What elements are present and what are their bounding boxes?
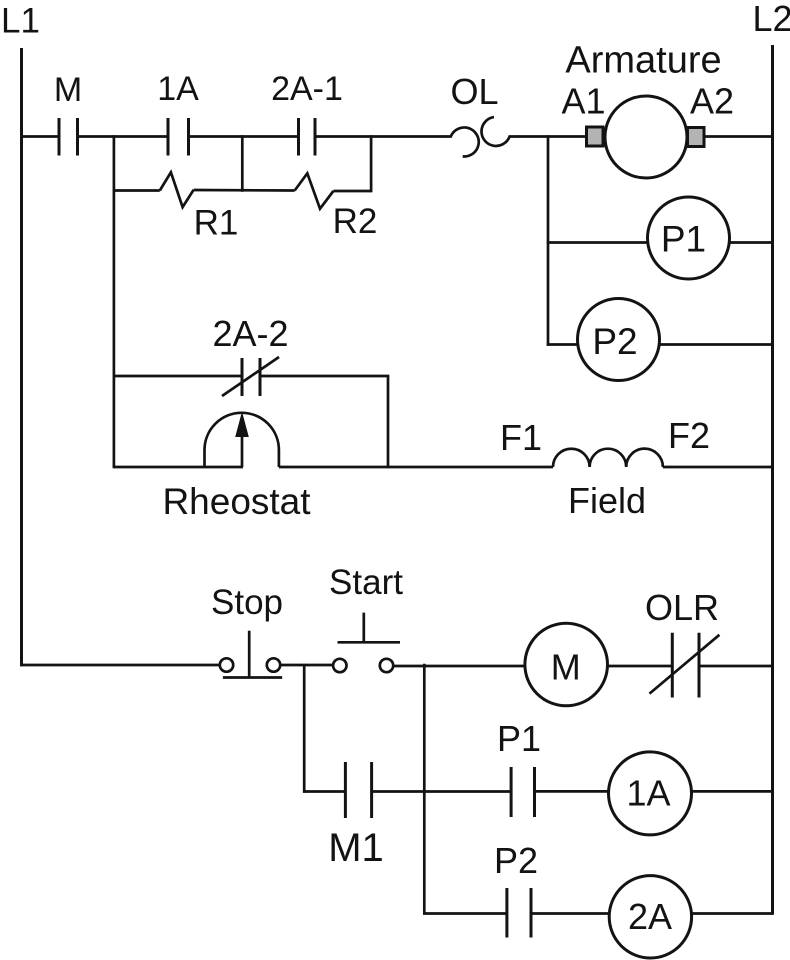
svg-text:Start: Start [329, 563, 403, 602]
wire P2 rung left [547, 343, 579, 346]
wire L1 rail [20, 48, 23, 666]
svg-text:M: M [551, 647, 581, 688]
wire M1 to contact P1 [372, 790, 512, 793]
coil 2A circle [609, 876, 691, 958]
wire Stop to Start [281, 664, 333, 667]
wire P2 rung right to L2 [658, 343, 773, 346]
wire M1 rung left [303, 790, 346, 793]
wire contact 1A to contact 2A-1 [189, 135, 299, 138]
resistor R1 zigzag [160, 172, 194, 207]
wire 2A-2 rung left [114, 375, 242, 378]
svg-text:Rheostat: Rheostat [162, 481, 311, 522]
svg-text:2A-2: 2A-2 [212, 313, 288, 354]
overload heater OL [443, 117, 519, 156]
svg-text:M1: M1 [328, 826, 384, 870]
pushbutton Stop (NC) [220, 631, 282, 678]
coil M circle [525, 623, 608, 706]
wire contact P1 to coil 1A [535, 790, 610, 793]
svg-text:L1: L1 [1, 2, 40, 41]
wire Start to coil M [394, 665, 526, 668]
contact P1 (NO) [511, 767, 534, 817]
wire contact P2 to coil 2A [531, 912, 610, 915]
wire resistor line left to R1 [114, 189, 160, 192]
wire junction drop at x114 (rung to resistor line and rheostat) [113, 135, 116, 468]
contact 1A (NO) [168, 118, 189, 156]
wire R2 to junction x371 [333, 190, 371, 193]
svg-text:R1: R1 [194, 204, 239, 243]
svg-text:F2: F2 [668, 415, 710, 456]
svg-text:P1: P1 [497, 718, 541, 759]
wire P1 rung right to L2 [729, 241, 774, 244]
svg-text:OLR: OLR [645, 587, 719, 628]
svg-text:Stop: Stop [211, 583, 283, 622]
svg-text:Armature: Armature [565, 40, 721, 82]
wire junction drop at x371 [370, 135, 373, 192]
pushbutton Start (NO) [333, 613, 400, 673]
wire OL to terminal A1 [518, 135, 587, 138]
contact OLR (NC) [650, 633, 720, 698]
wire coil 1A to L2 rail [692, 790, 774, 793]
svg-text:R2: R2 [333, 202, 378, 241]
wire central drop at x424 [423, 664, 426, 915]
wire L1 to Stop button [20, 664, 219, 667]
wire branch drop at x304 [303, 664, 306, 793]
wire rheostat line left [114, 466, 243, 469]
svg-text:A1: A1 [561, 81, 605, 122]
svg-text:2A-1: 2A-1 [271, 70, 343, 108]
svg-text:Field: Field [568, 480, 646, 521]
svg-text:L2: L2 [753, 0, 790, 39]
motor armature circle [605, 96, 687, 178]
svg-text:P2: P2 [494, 840, 538, 881]
svg-text:1A: 1A [626, 773, 670, 814]
svg-text:2A: 2A [628, 896, 672, 937]
wire drop at x388 to rheostat line [387, 376, 390, 468]
wire P2 rung bottom left [423, 912, 507, 915]
svg-text:A2: A2 [690, 81, 734, 122]
wire P1 rung left [547, 241, 649, 244]
wire junction drop at x242 [241, 135, 244, 192]
wire 2A-2 rung right [260, 375, 389, 378]
wire L2 rail [771, 45, 774, 915]
svg-text:OL: OL [450, 71, 498, 112]
contact 2A-1 (NO) [299, 118, 316, 156]
wire rheostat to field coil [279, 466, 553, 469]
wire R1 to R2 [194, 189, 295, 192]
terminal A2 square [688, 128, 705, 147]
coil P1 circle [648, 197, 730, 279]
contact M1 (NO) [345, 762, 371, 818]
coil P2 circle [578, 299, 660, 381]
terminal A1 square [587, 127, 604, 146]
svg-text:P2: P2 [592, 321, 637, 362]
wire contact 2A-1 to OL [315, 135, 444, 138]
resistor R2 zigzag [295, 173, 334, 208]
rheostat wiper arrow [235, 412, 249, 468]
contact M (NO) [59, 118, 78, 156]
svg-text:P1: P1 [661, 219, 706, 260]
wire field coil to L2 rail [663, 466, 773, 469]
contact 2A-2 (NC) [222, 357, 279, 396]
wire coil M to OLR [607, 665, 672, 668]
wire A2 to L2 rail [704, 135, 773, 138]
wire contact M to contact 1A [78, 135, 169, 138]
svg-text:M: M [54, 71, 82, 109]
wire junction drop at x548 (to P1 P2 rungs) [547, 135, 550, 346]
rheostat arc [205, 413, 279, 467]
svg-text:1A: 1A [157, 70, 199, 108]
wire top rung: L1 to contact M [20, 135, 59, 138]
svg-text:F1: F1 [500, 417, 542, 458]
wire OLR to L2 rail [699, 665, 773, 668]
contact P2 (NO) [507, 888, 531, 938]
inductor field coil [553, 449, 663, 467]
wire coil 2A to L2 rail [691, 912, 773, 915]
coil 1A circle [609, 752, 692, 835]
